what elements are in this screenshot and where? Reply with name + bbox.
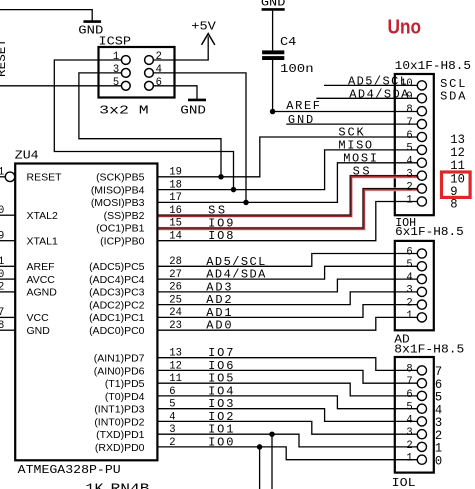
wire IO6: PD6 to IOL pin7 <box>157 370 417 383</box>
svg-text:14: 14 <box>169 231 182 243</box>
svg-text:(MISO)PB4: (MISO)PB4 <box>91 184 145 196</box>
connector IOL 8x1F-H8.5 <box>395 357 434 473</box>
IOH pin 2 <box>417 184 426 193</box>
svg-text:(T1)PD5: (T1)PD5 <box>105 378 145 390</box>
svg-text:7: 7 <box>0 307 4 319</box>
svg-text:SCL: SCL <box>440 77 465 91</box>
svg-text:1: 1 <box>406 453 413 465</box>
svg-text:20: 20 <box>0 269 4 281</box>
svg-text:6: 6 <box>406 130 412 142</box>
ICSP pin 1 (MISO) <box>121 56 130 65</box>
svg-text:16: 16 <box>169 205 182 217</box>
wire AD5/SCL to IOH pin10 <box>324 84 417 86</box>
svg-text:4: 4 <box>406 156 413 168</box>
svg-text:7: 7 <box>406 117 412 129</box>
svg-text:MOSI: MOSI <box>343 152 377 166</box>
svg-text:3: 3 <box>169 424 175 436</box>
svg-text:AD0: AD0 <box>206 319 231 333</box>
capacitor C4 100n <box>262 50 284 54</box>
IC ZU4 ATMEGA328P-PU <box>15 164 157 461</box>
wire RESET net to ICSP pin5 <box>0 85 121 87</box>
wire AD0: PC0 pin23 to AD pin1 <box>157 317 417 330</box>
ICSP pin 4 (MOSI) <box>145 69 154 78</box>
svg-text:28: 28 <box>169 256 182 268</box>
AD pin 3 <box>417 287 426 296</box>
svg-text:10x1F-H8.5: 10x1F-H8.5 <box>395 59 471 73</box>
wire GND to C4 top <box>272 11 274 51</box>
ICSP pin 3 (SCK) <box>121 69 130 78</box>
svg-text:(ADC3)PC3: (ADC3)PC3 <box>89 287 145 299</box>
wire GND to IOH pin7 <box>286 123 417 125</box>
svg-text:7: 7 <box>406 376 412 388</box>
svg-text:8x1F-H8.5: 8x1F-H8.5 <box>394 343 464 357</box>
svg-text:AGND: AGND <box>27 287 58 299</box>
svg-text:17: 17 <box>169 192 182 204</box>
IOH pin 1 <box>417 197 426 206</box>
svg-text:6: 6 <box>156 77 162 89</box>
AD pin 1 <box>417 313 426 322</box>
wire SS: PB2 pin16 to IOH pin3 (red highlighted) <box>157 176 418 217</box>
svg-text:GND: GND <box>27 325 51 337</box>
svg-text:5: 5 <box>406 143 412 155</box>
red annotation box around pins 10/9 <box>442 172 471 197</box>
wire AREF to IOH pin 8 <box>273 111 418 113</box>
svg-text:(INT1)PD3: (INT1)PD3 <box>94 404 144 416</box>
svg-text:(INT0)PD2: (INT0)PD2 <box>94 416 144 428</box>
ICSP pin 5 (RESET) <box>121 81 130 90</box>
svg-text:RESET: RESET <box>27 172 63 184</box>
wire RESET to chip <box>0 176 5 178</box>
IOL pin 4 <box>417 417 426 426</box>
wire C4 bottom to AREF net <box>272 60 274 112</box>
IOH pin 3 <box>417 171 426 180</box>
junction SCK junction <box>218 174 224 180</box>
svg-text:6: 6 <box>406 389 412 401</box>
svg-text:27: 27 <box>169 269 182 281</box>
svg-text:8: 8 <box>406 104 412 116</box>
svg-text:4: 4 <box>169 411 176 423</box>
wire IO4: PD4 to IOL pin5 <box>157 396 417 409</box>
svg-text:(OC1)PB1: (OC1)PB1 <box>96 223 145 235</box>
svg-text:1: 1 <box>0 167 5 179</box>
svg-text:3: 3 <box>406 285 412 297</box>
ground symbol top-left <box>83 20 101 23</box>
svg-text:C4: C4 <box>280 35 296 49</box>
wire AD4/SDA to IOH pin9 <box>316 97 417 99</box>
svg-text:19: 19 <box>169 167 182 179</box>
svg-text:10: 10 <box>400 78 413 90</box>
svg-text:6: 6 <box>169 386 175 398</box>
wire MOSI: PB3 pin17 to IOH pin4 <box>157 163 417 203</box>
svg-text:(AIN1)PD7: (AIN1)PD7 <box>94 353 145 365</box>
IOH pin 4 <box>417 158 426 167</box>
wire AD5/SCL: PC5 pin28 to AD pin6 <box>157 254 417 267</box>
wire AD4/SDA: PC4 pin27 to AD pin5 <box>157 266 417 279</box>
IOH pin 6 <box>417 132 426 141</box>
wire IO0: PD0 to IOL pin1 <box>157 447 417 460</box>
svg-text:4: 4 <box>156 64 163 76</box>
svg-text:22: 22 <box>0 282 4 294</box>
svg-text:(T0)PD4: (T0)PD4 <box>105 391 145 403</box>
svg-text:ICSP: ICSP <box>99 34 132 48</box>
svg-text:2: 2 <box>406 181 412 193</box>
IOL pin 5 <box>417 404 426 413</box>
svg-text:XTAL1: XTAL1 <box>27 236 58 248</box>
wire ICSP2 to +5V <box>153 37 208 61</box>
svg-text:23: 23 <box>169 320 182 332</box>
svg-text:(MOSI)PB3: (MOSI)PB3 <box>91 197 145 209</box>
svg-text:(ADC1)PC1: (ADC1)PC1 <box>89 312 145 324</box>
wire ICSP3 SCK to PB5 net <box>79 73 221 177</box>
svg-text:25: 25 <box>169 294 182 306</box>
svg-text:MISO: MISO <box>338 139 372 153</box>
AD pin 6 <box>417 249 426 258</box>
svg-text:SCK: SCK <box>338 126 364 140</box>
svg-text:9: 9 <box>406 91 412 103</box>
svg-text:12: 12 <box>169 360 182 372</box>
IOH pin 9 <box>417 94 426 103</box>
svg-text:6x1F-H8.5: 6x1F-H8.5 <box>395 225 464 239</box>
svg-text:1: 1 <box>113 51 120 63</box>
svg-text:(ADC4)PC4: (ADC4)PC4 <box>89 274 145 286</box>
svg-text:(RXD)PD0: (RXD)PD0 <box>95 442 145 454</box>
junction MOSI junction <box>243 200 249 206</box>
wire ICSP1 MISO to PB4 net <box>54 60 233 190</box>
ground symbol below ICSP <box>188 99 206 102</box>
svg-text:(ADC5)PC5: (ADC5)PC5 <box>89 261 145 273</box>
svg-text:6: 6 <box>406 246 412 258</box>
svg-text:GND: GND <box>288 113 313 127</box>
IOH pin 5 <box>417 145 426 154</box>
svg-text:10: 10 <box>0 205 4 217</box>
IOL pin 7 <box>417 379 426 388</box>
svg-text:4: 4 <box>406 272 413 284</box>
IOL pin 8 <box>417 366 426 375</box>
wire AD2: PC2 pin25 to AD pin3 <box>157 292 417 305</box>
IOL pin 1 <box>417 455 426 464</box>
svg-text:AD5/SCL: AD5/SCL <box>348 74 407 88</box>
svg-text:IO0: IO0 <box>208 435 233 449</box>
wire ICSP4 MOSI to PB3 net <box>153 73 246 203</box>
wire VCC pin stub <box>0 316 15 318</box>
IOH pin 10 <box>417 81 426 90</box>
IOH pin 7 <box>417 120 426 129</box>
svg-text:XTAL2: XTAL2 <box>27 210 58 222</box>
junction AREF junction <box>270 109 276 115</box>
svg-text:2: 2 <box>406 440 412 452</box>
svg-text:24: 24 <box>169 307 182 319</box>
wire MISO: PB4 pin18 to IOH pin5 <box>157 150 417 190</box>
wire IO8: PB0 pin14 to IOH pin1 <box>157 202 417 241</box>
junction IO1/TX to serial <box>269 431 275 437</box>
svg-text:AREF: AREF <box>27 261 55 273</box>
svg-text:18: 18 <box>169 179 182 191</box>
wire AGND pin stub <box>0 291 15 293</box>
svg-text:AREF: AREF <box>286 99 320 113</box>
svg-text:5: 5 <box>406 402 412 414</box>
svg-text:5: 5 <box>113 77 119 89</box>
svg-text:1: 1 <box>406 310 413 322</box>
svg-text:4: 4 <box>406 414 413 426</box>
svg-text:AVCC: AVCC <box>27 274 56 286</box>
svg-text:(SS)PB2: (SS)PB2 <box>104 210 145 222</box>
AD pin 5 <box>417 262 426 271</box>
wire from RESET area to GND symbol <box>0 10 92 21</box>
wire IO1: PD1 to IOL pin2 <box>157 434 417 447</box>
svg-text:(SCK)PB5: (SCK)PB5 <box>96 172 145 184</box>
wire IO7: PD7 to IOL pin8 <box>157 358 417 371</box>
svg-text:11: 11 <box>169 373 182 385</box>
svg-text:RN4B: RN4B <box>111 483 150 489</box>
wire IO3: PD3 to IOL pin4 <box>157 409 417 422</box>
connector AD 6x1F-H8.5 <box>395 241 434 330</box>
wire XTAL1 pin stub <box>0 240 15 242</box>
IOL pin 2 <box>417 442 426 451</box>
AD pin 4 <box>417 275 426 284</box>
wire IO5: PD5 to IOL pin6 <box>157 383 417 396</box>
wire ICSP6 to ground <box>153 86 197 99</box>
AD pin 2 <box>417 300 426 309</box>
connector ICSP (3x2 M) <box>99 47 175 98</box>
svg-text:RESET: RESET <box>0 39 9 77</box>
wire AD3: PC3 pin26 to AD pin4 <box>157 279 417 292</box>
svg-text:VCC: VCC <box>27 312 50 324</box>
wire IO9: PB1 pin15 to IOH pin2 (red highlighted) <box>157 189 418 229</box>
connector IOH 10x1F-H8.5 <box>395 74 434 215</box>
svg-text:(ICP)PB0: (ICP)PB0 <box>100 236 145 248</box>
svg-text:5: 5 <box>406 259 412 271</box>
svg-text:3x2 M: 3x2 M <box>99 103 149 117</box>
svg-text:21: 21 <box>0 256 5 268</box>
svg-text:GND: GND <box>180 103 206 117</box>
svg-text:3: 3 <box>406 427 412 439</box>
svg-text:(AIN0)PD6: (AIN0)PD6 <box>94 365 145 377</box>
svg-text:2: 2 <box>406 297 412 309</box>
wire XTAL2 pin stub <box>0 214 15 216</box>
IOL pin 3 <box>417 430 426 439</box>
svg-text:1K: 1K <box>86 483 105 489</box>
svg-text:9: 9 <box>0 231 4 243</box>
svg-text:ATMEGA328P-PU: ATMEGA328P-PU <box>18 463 121 477</box>
svg-text:(ADC2)PC2: (ADC2)PC2 <box>89 299 145 311</box>
ICSP pin 2 (VCC) <box>145 56 154 65</box>
svg-text:(TXD)PD1: (TXD)PD1 <box>96 429 145 441</box>
junction MISO junction <box>231 187 237 193</box>
svg-text:ZU4: ZU4 <box>15 149 39 163</box>
svg-text:IO8: IO8 <box>208 229 233 243</box>
wire IO2: PD2 to IOL pin3 <box>157 421 417 434</box>
svg-text:2: 2 <box>169 437 175 449</box>
svg-text:3: 3 <box>406 169 412 181</box>
RESET inversion bubble <box>5 172 15 182</box>
svg-text:3: 3 <box>113 64 119 76</box>
wire AVCC pin stub <box>0 278 15 280</box>
svg-text:100n: 100n <box>280 62 314 76</box>
svg-text:8: 8 <box>406 363 412 375</box>
svg-text:IOL: IOL <box>392 476 416 489</box>
svg-text:0: 0 <box>435 453 442 468</box>
svg-text:8: 8 <box>0 320 4 332</box>
svg-text:5: 5 <box>169 399 175 411</box>
svg-text:1: 1 <box>406 194 413 206</box>
svg-text:26: 26 <box>169 282 182 294</box>
svg-text:+5V: +5V <box>191 20 216 34</box>
wire IO0 down to serial section <box>259 447 261 489</box>
junction IO0/RX to serial <box>257 444 263 450</box>
wire AREF pin stub <box>0 265 15 267</box>
svg-text:15: 15 <box>169 218 182 230</box>
wire IO1 down to serial section <box>271 434 273 489</box>
svg-text:2: 2 <box>156 51 162 63</box>
svg-text:Uno: Uno <box>388 16 422 38</box>
svg-text:13: 13 <box>169 348 182 360</box>
wire SCK: PB5 pin19 to IOH pin6 <box>157 137 417 177</box>
svg-text:(ADC0)PC0: (ADC0)PC0 <box>89 325 145 337</box>
power symbol +5V <box>202 34 215 45</box>
wire GND pin stub <box>0 329 15 331</box>
IOL pin 6 <box>417 391 426 400</box>
wire AD1: PC1 pin24 to AD pin2 <box>157 305 417 318</box>
svg-text:SDA: SDA <box>440 90 466 104</box>
IOH pin 8 <box>417 107 426 116</box>
ICSP pin 6 (GND) <box>145 81 154 90</box>
